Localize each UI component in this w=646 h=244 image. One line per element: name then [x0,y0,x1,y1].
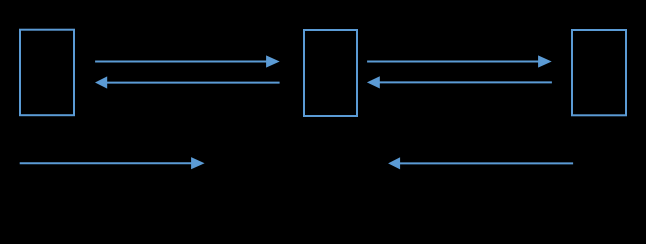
box: left entity [20,30,74,116]
arrow: middle-to-right request (points right) [367,55,552,67]
arrow: right-to-middle response (points left) [367,76,552,88]
box: middle entity [304,30,357,116]
arrow: lower-left flow (points right) [20,157,205,169]
box: right entity [572,30,626,115]
arrow: middle-to-left response (points left) [95,76,280,88]
arrow: left-to-middle request (points right) [95,55,280,67]
arrow: lower-right flow (points left) [388,157,573,169]
